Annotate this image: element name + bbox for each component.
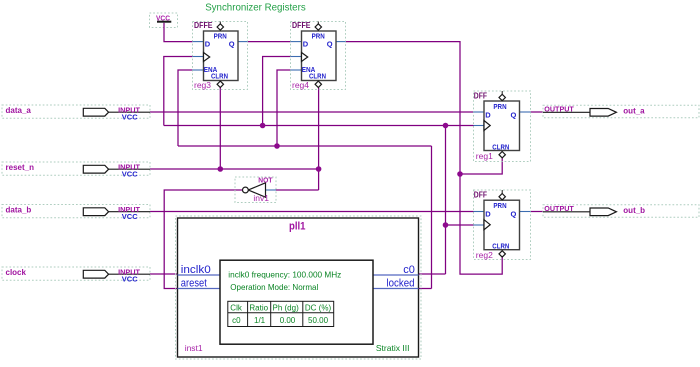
junction on c0 vertical at reg2 clock branch	[443, 222, 449, 228]
pll ratio table	[228, 301, 334, 326]
svg-text:data_b: data_b	[6, 206, 32, 215]
svg-text:PRN: PRN	[214, 32, 227, 41]
junction on sync-reset vertical at reg1 CLRN link	[457, 171, 463, 177]
svg-text:reg2: reg2	[476, 250, 493, 260]
wire locked/ENA row C	[178, 70, 432, 289]
svg-text:PRN: PRN	[312, 32, 325, 41]
wire reset_n row D to reg3/reg4 CLRN and NOT input	[150, 88, 319, 190]
wire c0 branch to reg2 clock	[446, 224, 474, 226]
svg-text:out_b: out_b	[623, 206, 645, 215]
wire clock to pll inclk0	[150, 273, 178, 275]
svg-text:CLRN: CLRN	[211, 72, 228, 81]
pll pin locked	[373, 288, 419, 290]
pll pin c0	[373, 274, 419, 276]
svg-text:Operation Mode: Normal: Operation Mode: Normal	[230, 282, 318, 292]
junction on row C at reg4 ENA branch	[274, 143, 280, 149]
junction on reset row at reg3 CLRN	[218, 166, 224, 172]
svg-text:PRN: PRN	[493, 102, 506, 111]
svg-text:1/1: 1/1	[254, 316, 266, 325]
svg-text:inclk0: inclk0	[181, 264, 211, 276]
svg-text:VCC: VCC	[122, 274, 138, 283]
svg-text:Q: Q	[327, 40, 333, 49]
svg-text:DC (%): DC (%)	[305, 304, 332, 313]
svg-text:CLRN: CLRN	[309, 72, 326, 81]
wire clock-dist row B with branches to reg3/reg4 clocks	[164, 57, 474, 275]
junction on row B at c0 vertical	[443, 123, 449, 129]
svg-text:inst1: inst1	[185, 343, 203, 353]
svg-text:DFFE: DFFE	[194, 21, 213, 30]
svg-text:reg1: reg1	[476, 151, 493, 161]
input pin clock	[2, 267, 150, 283]
svg-text:VCC: VCC	[122, 112, 138, 121]
svg-text:Clk: Clk	[230, 304, 243, 313]
svg-text:D: D	[205, 40, 211, 49]
junction on reset row at reg4 CLRN	[316, 166, 322, 172]
input pin data_b	[2, 205, 150, 221]
svg-text:Ratio: Ratio	[249, 304, 268, 313]
power VCC symbol	[150, 13, 178, 28]
pll pin areset	[178, 288, 221, 290]
junction on row B at reg4 clock branch	[260, 123, 266, 129]
svg-text:Stratix III: Stratix III	[376, 343, 410, 353]
svg-text:inv1: inv1	[253, 193, 269, 203]
svg-text:areset: areset	[181, 277, 207, 289]
svg-text:inclk0 frequency: 100.000 MHz: inclk0 frequency: 100.000 MHz	[228, 270, 341, 280]
pll pin inclk0	[178, 274, 221, 276]
wire VCC to reg3.D	[164, 23, 193, 42]
pll block pll1	[176, 216, 422, 359]
svg-text:CLRN: CLRN	[492, 241, 509, 250]
wire NOT output to pll areset	[164, 190, 242, 289]
svg-text:reg4: reg4	[292, 80, 309, 90]
svg-text:DFF: DFF	[474, 92, 487, 101]
svg-text:clock: clock	[6, 268, 27, 277]
flip-flop reg3 DFFE	[193, 21, 248, 90]
svg-text:Q: Q	[511, 110, 517, 119]
svg-text:locked: locked	[387, 277, 415, 289]
svg-text:c0: c0	[232, 316, 241, 325]
input pin data_a	[2, 105, 150, 121]
svg-text:PRN: PRN	[493, 201, 506, 210]
flip-flop reg4 DFFE	[291, 21, 346, 90]
wire data_a row to reg1.D	[150, 111, 474, 113]
flip-flop reg1 DFF	[474, 91, 531, 162]
svg-text:Q: Q	[229, 40, 235, 49]
svg-text:VCC: VCC	[122, 212, 138, 221]
svg-text:50.00: 50.00	[308, 316, 329, 325]
wire reg4.Q to reg1/reg2 CLRN	[346, 42, 503, 275]
svg-text:0.00: 0.00	[280, 316, 296, 325]
svg-text:D: D	[485, 110, 491, 119]
svg-text:c0: c0	[403, 264, 415, 276]
svg-text:Ph (dg): Ph (dg)	[273, 304, 300, 313]
svg-text:reg3: reg3	[194, 80, 211, 90]
wire reg2.Q to out_b	[531, 211, 544, 213]
svg-text:out_a: out_a	[623, 107, 645, 116]
output pin out_a	[543, 105, 699, 118]
svg-text:reset_n: reset_n	[6, 163, 35, 172]
svg-text:D: D	[303, 40, 309, 49]
svg-text:D: D	[485, 210, 491, 219]
svg-text:DFFE: DFFE	[292, 21, 311, 30]
svg-text:DFF: DFF	[474, 191, 487, 200]
output pin out_b	[543, 204, 699, 217]
input pin reset_n	[2, 162, 150, 178]
wire data_b row to reg2.D	[150, 211, 474, 213]
svg-text:data_a: data_a	[6, 106, 32, 115]
svg-text:NOT: NOT	[258, 176, 273, 185]
svg-text:Synchronizer Registers: Synchronizer Registers	[205, 1, 306, 13]
inverter NOT inv1	[235, 176, 276, 204]
svg-text:VCC: VCC	[122, 169, 138, 178]
svg-text:Q: Q	[511, 210, 517, 219]
wire pll c0 to clock-dist vertical	[419, 273, 446, 275]
flip-flop reg2 DFF	[474, 190, 531, 260]
pll parameter box	[220, 260, 373, 344]
svg-text:pll1: pll1	[289, 221, 306, 233]
wire reg1.Q to out_a	[531, 111, 544, 113]
svg-text:CLRN: CLRN	[492, 142, 509, 151]
wire reg3.Q to reg4.D	[248, 41, 291, 43]
